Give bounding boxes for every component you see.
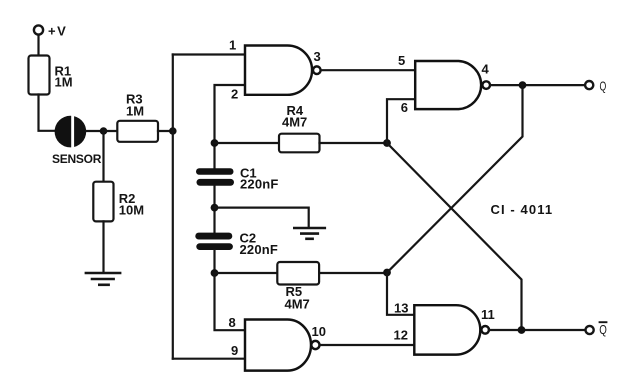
wire R3 to node B [158, 130, 173, 132]
capacitor C1 [196, 168, 234, 186]
wire gate U1a output to pin 5 [321, 69, 415, 71]
svg-text:4M7: 4M7 [282, 114, 307, 129]
node F junction [383, 269, 391, 277]
wire gate U1b output to terminal Q [491, 84, 584, 86]
wire pin 1 stub [173, 53, 246, 55]
wire node to R4 [215, 142, 280, 144]
wire node G to node F (cross diagonal) [387, 85, 522, 272]
label R3 1M [126, 91, 144, 118]
terminal +V [34, 25, 43, 34]
label R2 10M [119, 191, 144, 218]
wire node D to R5 [215, 272, 278, 274]
ground G1 [85, 273, 122, 285]
wire node D to pin 8 [215, 273, 246, 330]
svg-text:10M: 10M [119, 203, 144, 218]
svg-text:11: 11 [481, 307, 495, 322]
node E junction [383, 139, 391, 147]
resistor R3 [117, 121, 158, 142]
capacitor C2 [195, 233, 233, 250]
svg-text:1M: 1M [126, 104, 144, 119]
wire node A to R3 [104, 130, 118, 132]
bubble gate U1c output [311, 341, 319, 349]
svg-text:8: 8 [229, 315, 236, 330]
resistor R1 [29, 56, 50, 95]
wire R5 to node F [319, 272, 387, 274]
label R5 4M7 [285, 284, 310, 312]
svg-text:220nF: 220nF [240, 176, 279, 191]
wire +V to R1 [37, 36, 39, 56]
label R4 4M7 [282, 103, 307, 129]
svg-text:10: 10 [312, 324, 326, 339]
svg-text:1: 1 [229, 37, 236, 52]
terminal Q [585, 81, 593, 89]
node D junction [211, 269, 219, 277]
svg-text:+V: +V [48, 24, 67, 39]
label C1 220nF [240, 166, 279, 192]
svg-text:4: 4 [482, 62, 490, 77]
svg-text:5: 5 [398, 53, 405, 68]
wire gate U1c output to pin 12 [320, 344, 415, 346]
node C junction [211, 204, 219, 212]
NAND gate U1d (pins 13,12,11) [414, 305, 480, 354]
resistor R4 [279, 134, 320, 153]
svg-text:13: 13 [394, 300, 408, 315]
bubble gate U1b output [482, 81, 490, 89]
node A junction [100, 127, 108, 135]
node H junction on Qbar wire [518, 326, 526, 334]
label Qbar [599, 322, 608, 337]
node B junction [169, 127, 177, 135]
wire R4 to node E [320, 142, 388, 144]
wire pin 2 stub [215, 85, 246, 169]
svg-text:220nF: 220nF [240, 242, 279, 257]
svg-text:12: 12 [394, 327, 408, 342]
wire node A to R2 [102, 131, 104, 182]
svg-text:2: 2 [231, 86, 238, 101]
wire gate U1d output to terminal Qbar [489, 329, 585, 331]
svg-text:Q: Q [599, 323, 607, 337]
svg-text:SENSOR: SENSOR [52, 152, 102, 166]
svg-text:6: 6 [401, 100, 408, 115]
svg-text:CI - 4011: CI - 4011 [491, 202, 554, 217]
wire R2 to ground [102, 221, 104, 272]
wire C1 to node C [213, 186, 215, 233]
svg-text:3: 3 [314, 49, 321, 64]
svg-text:9: 9 [231, 343, 238, 358]
bubble gate U1d output [481, 326, 489, 334]
node G junction on Q wire [519, 81, 527, 89]
wire node E to pin 6 [387, 99, 416, 143]
resistor R2 [93, 182, 113, 222]
svg-text:Q: Q [600, 79, 607, 94]
svg-text:1M: 1M [55, 75, 73, 90]
svg-text:4M7: 4M7 [285, 297, 310, 312]
wire node F to pin 13 [387, 273, 415, 315]
terminal Qbar [586, 326, 594, 334]
wire R1 to sensor [39, 95, 56, 131]
resistor R5 [277, 262, 319, 285]
wire node E to node H (cross diagonal) [387, 143, 522, 330]
node R4 left junction [211, 139, 219, 147]
NAND gate U1c (pins 8,9,10) [245, 320, 311, 371]
ground G2 [293, 228, 326, 239]
bubble gate U1a output [313, 66, 321, 74]
label C2 220nF [240, 230, 279, 257]
NAND gate U1a (pins 1,2,3) [245, 46, 312, 95]
label R1 1M [55, 64, 73, 90]
wire vertical bus node B to pin 9 [172, 131, 174, 359]
wire C2 to node D [213, 250, 215, 273]
wire pin 9 stub [173, 358, 245, 360]
wire vertical bus node B to pin 1 [172, 55, 174, 132]
wire sensor to node A [86, 130, 104, 132]
sensor SENSOR [55, 113, 87, 150]
wire node C to ground G2 [215, 208, 309, 227]
NAND gate U1b (pins 5,6,4) [415, 61, 481, 109]
